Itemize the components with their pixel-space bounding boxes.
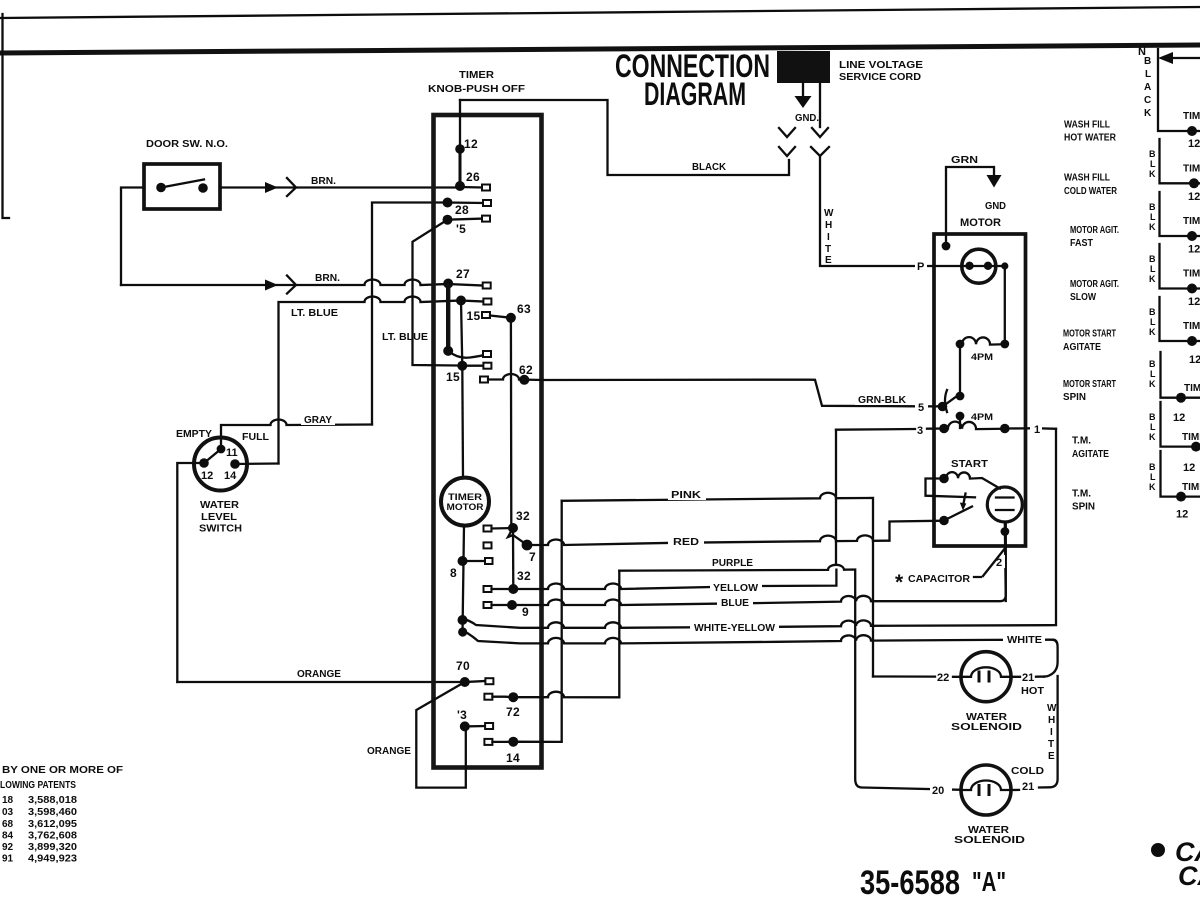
terminal square 28 (483, 200, 491, 206)
wire start coil bypass L path (926, 479, 976, 498)
wire BRN lower to timer 27 (121, 280, 448, 286)
WLS contact 11 (217, 445, 226, 454)
timer contact 70 (460, 677, 470, 687)
svg-text:B: B (1149, 149, 1156, 159)
ground lead of cord (802, 83, 804, 97)
wire terminal row 4 bracket (1160, 244, 1200, 289)
label 5 motor (915, 399, 928, 413)
svg-text:BY ONE OR MORE OF: BY ONE OR MORE OF (2, 765, 123, 776)
wire door switch left loop down (121, 188, 144, 286)
capacitor plate upper (996, 496, 1014, 498)
wire PURPLE row 72 to cold feed riser (619, 565, 961, 790)
wire 63 down to 32 (510, 318, 513, 527)
svg-text:RED: RED (673, 537, 699, 548)
svg-text:"A": "A" (972, 866, 1006, 897)
svg-text:TIMER: TIMER (448, 492, 483, 502)
svg-text:4PM: 4PM (971, 352, 993, 362)
timer switch bar 27 down (446, 284, 450, 351)
svg-text:K: K (1149, 327, 1156, 337)
svg-text:TIME: TIME (1183, 321, 1200, 332)
label ORANGE lower (364, 743, 414, 756)
wire WHITE drop to hot solenoid 21 (1044, 640, 1058, 677)
water level switch body (194, 438, 247, 491)
terminal square 26 (482, 185, 490, 191)
svg-text:CAPACITOR: CAPACITOR (908, 574, 971, 585)
svg-text:L: L (1150, 212, 1156, 222)
page top thick rule (0, 45, 1200, 53)
speed contact lower (956, 412, 965, 421)
svg-text:'3: '3 (457, 708, 467, 722)
svg-text:L: L (1145, 69, 1151, 80)
svg-text:03: 03 (2, 807, 14, 818)
svg-text:START: START (951, 459, 988, 470)
door switch right contact (198, 183, 208, 193)
wire purple riser to 3 row (835, 430, 837, 565)
wire N black feed with left arrow (1166, 57, 1200, 59)
wire terminal row 6 bracket (1161, 352, 1200, 398)
wire terminal row 2 bracket (1160, 139, 1200, 183)
svg-text:SPIN: SPIN (1063, 392, 1086, 403)
wire PINK row (562, 493, 873, 677)
svg-text:*: * (895, 571, 904, 594)
svg-text:BRN.: BRN. (315, 273, 340, 284)
svg-text:11: 11 (226, 447, 238, 459)
svg-text:9: 9 (522, 605, 529, 619)
svg-text:12: 12 (1176, 509, 1188, 521)
wire ORANGE row WLS to timer 70 (177, 681, 465, 683)
svg-text:22: 22 (937, 672, 949, 684)
junction dot GRN (942, 242, 951, 251)
cold solenoid inner mark (979, 786, 989, 795)
svg-text:C: C (1144, 95, 1151, 106)
timer contact 27 (443, 279, 453, 289)
wire BLACK from timer 12 to cord (460, 100, 789, 175)
svg-text:TIME: TIME (1183, 269, 1200, 280)
wire capacitor bottom to 2 (1005, 522, 1006, 601)
svg-text:4PM: 4PM (971, 412, 993, 422)
svg-text:MOTOR: MOTOR (960, 217, 1001, 229)
white lead arrowhead chevron (812, 128, 828, 137)
speed contact upper (956, 392, 965, 401)
svg-text:3: 3 (917, 425, 923, 437)
label 20 (930, 782, 952, 796)
black lead chevron lower (779, 147, 795, 156)
junction dot fast left (956, 340, 965, 349)
label BRN upper (308, 174, 340, 186)
terminal stub 27 (448, 284, 483, 286)
wire GRAY from WLS 11 to 28 net (221, 420, 372, 450)
wire RED row timer 7 to motor 4 (527, 521, 944, 545)
cold water solenoid circle (961, 765, 1011, 815)
label P (915, 258, 927, 271)
svg-text:GND.: GND. (795, 113, 819, 124)
junction dot capacitor bottom (1001, 527, 1010, 536)
terminal square 15 lower (483, 363, 491, 369)
svg-text:L: L (1150, 264, 1156, 274)
WLS blade 12 to 11 (204, 449, 221, 463)
terminal square 72 (484, 694, 492, 700)
wire WLS 14 to riser (235, 462, 279, 465)
svg-text:BLUE: BLUE (721, 598, 749, 609)
motor fast winding coil (962, 337, 1003, 344)
svg-text:ORANGE: ORANGE (297, 669, 341, 680)
svg-text:63: 63 (517, 302, 531, 316)
footnote asterisk blob (1151, 843, 1165, 857)
svg-text:COLD WATER: COLD WATER (1064, 186, 1118, 197)
rotor contact left (965, 262, 973, 270)
timer blade 32 to 7 (508, 528, 527, 545)
junction dot row 1 (1187, 126, 1197, 136)
timer contact 63 (506, 313, 516, 323)
svg-text:12: 12 (1183, 462, 1195, 474)
timer contact 12 (455, 144, 465, 154)
svg-text:FULL: FULL (242, 432, 269, 443)
svg-text:T: T (825, 244, 831, 255)
wire terminal row 8 bracket (1161, 451, 1200, 497)
wire 15-63 vertical (461, 301, 462, 366)
svg-text:EMPTY: EMPTY (176, 429, 212, 440)
ground arrow (795, 96, 812, 108)
terminal stub 28 (448, 201, 484, 204)
motor contact 5 (938, 402, 948, 412)
svg-text:KNOB-PUSH OFF: KNOB-PUSH OFF (428, 84, 525, 95)
svg-text:LT. BLUE: LT. BLUE (291, 308, 338, 319)
svg-text:DIAGRAM: DIAGRAM (644, 76, 746, 112)
svg-text:AGITATE: AGITATE (1072, 449, 1109, 460)
terminal stub 73 (465, 725, 485, 728)
chevron BRN lower (287, 276, 296, 294)
svg-text:14: 14 (224, 470, 237, 482)
svg-text:92: 92 (2, 842, 14, 853)
svg-text:LOWING PATENTS: LOWING PATENTS (0, 780, 76, 791)
svg-text:21: 21 (1022, 672, 1034, 684)
terminal stub 26 (460, 186, 482, 189)
svg-text:L: L (1150, 317, 1156, 327)
svg-text:COLD: COLD (1011, 766, 1044, 777)
svg-text:SOLENOID: SOLENOID (954, 835, 1025, 846)
arrowhead on N feed (1158, 52, 1173, 64)
svg-text:GRN: GRN (951, 155, 978, 166)
svg-text:H: H (1048, 715, 1055, 726)
svg-text:8: 8 (450, 566, 457, 580)
timer contact 26 (455, 181, 465, 191)
terminal stub 70 (465, 681, 486, 682)
wire WHITE row timer to solenoid feed (463, 631, 1053, 644)
svg-text:70: 70 (456, 659, 470, 673)
label BRN lower (312, 271, 344, 283)
terminal stub 5 (448, 219, 483, 220)
svg-text:L: L (1150, 369, 1156, 379)
svg-text:12: 12 (1188, 138, 1200, 150)
terminal square 14 (484, 739, 492, 745)
motor rotor circle (962, 249, 996, 283)
junction dot row 8 (1176, 492, 1186, 502)
svg-text:5: 5 (918, 402, 924, 414)
svg-text:DOOR SW. N.O.: DOOR SW. N.O. (146, 139, 228, 150)
wire square to 32 (492, 527, 514, 530)
wire LT.BLUE from WLS 14 riser to timer 15 (279, 297, 462, 464)
terminal square 70 (485, 678, 493, 684)
hot solenoid inner mark (979, 672, 989, 681)
svg-text:TIMER: TIMER (459, 70, 495, 81)
svg-text:K: K (1149, 169, 1156, 179)
wire P row through rotor (934, 265, 1005, 267)
hot water solenoid circle (961, 652, 1011, 702)
timer junction 15 lower (457, 361, 467, 371)
wire 14 row to pink riser (492, 501, 561, 742)
svg-text:L: L (1150, 159, 1156, 169)
svg-text:ORANGE: ORANGE (367, 746, 411, 757)
timer contact 28 (443, 198, 453, 208)
svg-text:E: E (825, 255, 832, 266)
svg-text:MOTOR START: MOTOR START (1063, 379, 1116, 390)
svg-text:B: B (1149, 412, 1156, 422)
wire WHITE-YELLOW row timer to motor 1 riser (463, 429, 1057, 628)
wire 22 row hot solenoid feed (873, 675, 961, 678)
svg-text:12: 12 (1188, 244, 1200, 256)
svg-text:12: 12 (1173, 412, 1185, 424)
timer contact 62 (519, 375, 529, 385)
start switch blade (944, 507, 972, 521)
timer bottom junction dots (458, 615, 468, 625)
wire terminal row 7 bracket (1161, 402, 1200, 447)
timer contact 15 upper (lt blue) (456, 296, 466, 306)
terminal square 62 (480, 377, 488, 383)
svg-text:28: 28 (455, 203, 469, 217)
wire yellow stub to 32 lower (492, 588, 514, 590)
wire rotor to fast coil vertical (1004, 266, 1006, 344)
svg-text:T.M.: T.M. (1072, 436, 1091, 447)
svg-text:GND: GND (985, 201, 1006, 212)
svg-text:L: L (1150, 472, 1156, 482)
svg-text:TIME: TIME (1184, 383, 1200, 394)
svg-text:WHITE: WHITE (1007, 635, 1042, 646)
svg-text:P: P (917, 261, 924, 273)
svg-text:12: 12 (1189, 354, 1200, 366)
timer box (434, 115, 542, 768)
wire YELLOW row 32 to purple junction (513, 570, 836, 589)
label PURPLE (709, 556, 756, 568)
page top thin rule (0, 7, 1200, 18)
wire N vertical to terminal row 1 (1158, 49, 1200, 131)
timer contact 5 (443, 215, 453, 225)
wire timer 12 up to black net (459, 100, 461, 149)
terminal square lt blue (483, 299, 491, 305)
svg-text:SPIN: SPIN (1072, 502, 1095, 513)
svg-text:WASH FILL: WASH FILL (1064, 120, 1110, 131)
capacitor plate lower (996, 509, 1014, 511)
svg-text:K: K (1149, 274, 1156, 284)
svg-text:A: A (1144, 82, 1151, 93)
hot solenoid coil bump (961, 667, 1011, 677)
svg-text:PURPLE: PURPLE (712, 558, 753, 569)
junction dot fast right (1000, 340, 1009, 349)
wire terminal row 5 bracket (1160, 297, 1200, 341)
wire WLS 12 left down to orange row (177, 463, 204, 682)
svg-text:21: 21 (1022, 781, 1034, 793)
timer contact 32 upper (508, 523, 518, 533)
svg-text:15: 15 (446, 370, 460, 384)
junction dot row 4 (1187, 284, 1197, 294)
svg-text:MOTOR AGIT.: MOTOR AGIT. (1070, 279, 1119, 290)
label 3 motor (915, 421, 927, 435)
svg-text:14: 14 (506, 751, 520, 765)
svg-text:B: B (1149, 462, 1156, 472)
svg-text:MOTOR AGIT.: MOTOR AGIT. (1070, 225, 1119, 236)
arrowhead BRN upper (265, 182, 278, 193)
svg-text:FAST: FAST (1070, 238, 1093, 249)
svg-text:35-6588: 35-6588 (860, 864, 960, 902)
svg-text:32: 32 (516, 509, 530, 523)
terminal square 5 (482, 216, 490, 222)
svg-text:4,949,923: 4,949,923 (28, 854, 77, 865)
svg-text:MOTOR: MOTOR (447, 502, 485, 512)
svg-text:K: K (1149, 482, 1156, 492)
terminal square 351 (483, 351, 491, 357)
white lead of cord (819, 83, 821, 127)
svg-text:SOLENOID: SOLENOID (951, 722, 1022, 733)
svg-text:72: 72 (506, 705, 520, 719)
label WHITE mid (1003, 632, 1045, 645)
label 2 (995, 555, 1005, 568)
label GRAY (301, 413, 335, 425)
terminal stub lt blue (461, 301, 483, 302)
WLS contact 14 (230, 459, 240, 469)
service cord plug body (777, 51, 830, 83)
wire lower contact into slow coil (959, 416, 961, 428)
junction dot P right (1001, 262, 1008, 269)
svg-text:TIME: TIME (1183, 164, 1200, 175)
wire 70 to 73 outer U path (416, 682, 466, 788)
timer switch bar 12-26 (459, 149, 462, 186)
label WHITE-YELLOW (690, 620, 779, 633)
wire 28 net left vertical to GRAY corner (372, 203, 448, 425)
svg-text:B: B (1149, 307, 1156, 317)
wire 3 row from purple junction to motor 3 (836, 429, 944, 430)
svg-text:12: 12 (201, 470, 213, 482)
svg-text:12: 12 (1188, 296, 1200, 308)
wire cold 21 lead (1011, 789, 1019, 791)
wire blue stub to 9 (492, 604, 513, 606)
svg-text:I: I (827, 232, 830, 243)
svg-text:CA: CA (1178, 861, 1200, 891)
timer contact 72 (508, 692, 518, 702)
svg-text:SERVICE CORD: SERVICE CORD (839, 72, 921, 83)
junction dot row 7 (1191, 442, 1200, 452)
wire square to 63 (490, 316, 511, 318)
svg-text:TIME: TIME (1183, 111, 1200, 122)
svg-text:32: 32 (517, 569, 531, 583)
white wire break chevron (811, 147, 829, 156)
motor box (934, 234, 1026, 546)
motor slow winding coil (944, 422, 1003, 429)
svg-text:LINE VOLTAGE: LINE VOLTAGE (839, 60, 923, 71)
WLS contact 12 (199, 458, 209, 468)
svg-text:WATER: WATER (200, 500, 240, 511)
label BLUE (717, 595, 753, 608)
wire S-link to terminal 351 (448, 351, 487, 358)
svg-text:T.M.: T.M. (1072, 489, 1091, 500)
svg-text:1: 1 (1034, 424, 1040, 436)
svg-text:TIME: TIME (1183, 216, 1200, 227)
wire fast left down to speed contacts (959, 344, 961, 396)
speed blade flick mark (945, 390, 947, 412)
svg-text:W: W (824, 208, 834, 219)
svg-text:SLOW: SLOW (1070, 292, 1096, 303)
ground arrow motor (987, 175, 1002, 188)
label RED (668, 534, 704, 547)
wire 72 row to purple riser (492, 571, 619, 698)
terminal stub 15 lower (462, 365, 483, 367)
wire timer motor feed vertical (461, 366, 464, 478)
wire GRN-BLK timer 62 to motor 5 (542, 380, 939, 407)
svg-text:WASH FILL: WASH FILL (1064, 173, 1110, 184)
svg-text:27: 27 (456, 267, 470, 281)
wire 62 row (488, 374, 542, 380)
door switch blade (161, 180, 204, 188)
terminal square 8 (485, 558, 493, 564)
svg-text:68: 68 (2, 819, 14, 830)
svg-text:91: 91 (2, 854, 14, 865)
timer contact 9 (507, 600, 517, 610)
svg-text:L: L (1150, 422, 1156, 432)
svg-text:7: 7 (529, 550, 536, 564)
svg-text:B: B (1149, 254, 1156, 264)
label YELLOW (710, 580, 762, 593)
label LT. BLUE middle (379, 330, 430, 342)
svg-text:GRAY: GRAY (304, 415, 332, 426)
motor contact 4 (939, 516, 949, 526)
arrowhead BRN lower (265, 280, 278, 291)
door switch S1 box (144, 164, 220, 209)
wire terminal row 3 bracket (1160, 192, 1200, 236)
terminal square 73 (485, 723, 493, 729)
svg-text:3,588,018: 3,588,018 (28, 795, 77, 806)
junction dot row 5 (1187, 336, 1197, 346)
svg-text:62: 62 (519, 363, 533, 377)
svg-text:PINK: PINK (671, 490, 702, 501)
wire WHITE vertical from cord to motor P row (820, 156, 934, 266)
svg-text:K: K (1149, 432, 1156, 442)
svg-text:LEVEL: LEVEL (201, 512, 237, 523)
terminal square 15 upper (482, 312, 490, 318)
door switch left contact (156, 183, 166, 193)
label ORANGE left (294, 666, 344, 679)
svg-text:TIME: TIME (1182, 432, 1200, 443)
start blade arrow mark (963, 494, 966, 507)
svg-text:3,762,608: 3,762,608 (28, 831, 77, 842)
svg-text:B: B (1149, 202, 1156, 212)
svg-text:W: W (1047, 703, 1057, 714)
svg-text:K: K (1144, 108, 1152, 119)
wire 5 diagonal to riser (413, 220, 458, 366)
svg-text:WHITE-YELLOW: WHITE-YELLOW (694, 623, 776, 634)
wire GRN motor ground (946, 167, 994, 246)
label 1 (1030, 420, 1042, 435)
svg-text:12: 12 (1188, 191, 1200, 203)
svg-text:GRN-BLK: GRN-BLK (858, 395, 907, 406)
junction dot slow right (1000, 424, 1010, 434)
svg-text:12: 12 (464, 137, 478, 151)
svg-text:15: 15 (467, 309, 481, 323)
svg-text:BLACK: BLACK (692, 162, 727, 173)
svg-text:84: 84 (2, 831, 14, 842)
wire WHITE drop hot to cold 21 (1039, 676, 1058, 788)
junction dot row 2 (1189, 178, 1199, 188)
svg-text:SWITCH: SWITCH (199, 524, 242, 535)
svg-text:26: 26 (466, 170, 480, 184)
motor contact 3 (939, 424, 949, 434)
